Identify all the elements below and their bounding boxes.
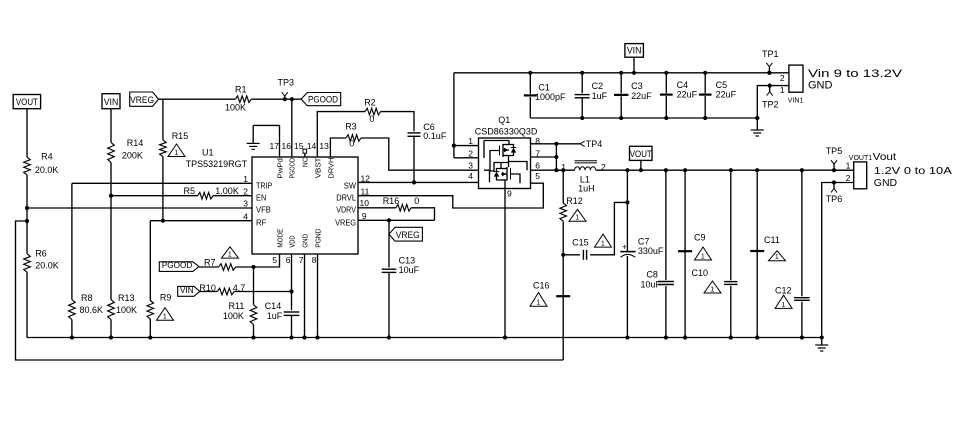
svg-text:TP3: TP3 — [278, 77, 295, 87]
svg-text:CSD86330Q3D: CSD86330Q3D — [475, 127, 538, 137]
svg-text:13: 13 — [319, 141, 329, 151]
svg-text:7: 7 — [535, 148, 540, 158]
svg-text:PGND: PGND — [314, 228, 323, 248]
svg-text:PGOOD: PGOOD — [288, 158, 297, 179]
svg-text:R6: R6 — [35, 249, 47, 259]
svg-text:3: 3 — [243, 199, 248, 209]
svg-text:U1: U1 — [202, 148, 214, 158]
svg-text:Q1: Q1 — [498, 115, 510, 125]
svg-text:7: 7 — [299, 255, 304, 265]
svg-text:VFB: VFB — [256, 206, 271, 215]
svg-text:5: 5 — [535, 171, 540, 181]
svg-text:17: 17 — [270, 141, 280, 151]
svg-text:R2: R2 — [364, 97, 376, 107]
svg-text:GND: GND — [301, 234, 310, 248]
svg-text:MODE: MODE — [276, 229, 285, 248]
svg-text:1uF: 1uF — [267, 311, 283, 321]
svg-text:4: 4 — [243, 211, 248, 221]
svg-text:VOUT1: VOUT1 — [849, 155, 872, 162]
svg-text:22uF: 22uF — [677, 89, 698, 99]
svg-text:NC: NC — [301, 157, 310, 167]
svg-text:+: + — [622, 243, 627, 252]
svg-text:PwPd: PwPd — [276, 158, 285, 178]
svg-text:R11: R11 — [229, 301, 245, 311]
svg-text:8: 8 — [312, 255, 317, 265]
svg-text:1.2V 0 to 10A: 1.2V 0 to 10A — [874, 165, 952, 177]
svg-text:1000pF: 1000pF — [535, 92, 566, 102]
svg-text:1: 1 — [243, 174, 248, 184]
svg-text:200K: 200K — [122, 151, 143, 161]
svg-text:VIN: VIN — [180, 285, 194, 295]
svg-text:C12: C12 — [775, 286, 792, 296]
svg-text:R13: R13 — [118, 293, 135, 303]
svg-text:1: 1 — [174, 150, 178, 157]
svg-text:TP1: TP1 — [762, 49, 779, 59]
svg-text:VIN: VIN — [627, 46, 642, 57]
svg-text:C3: C3 — [631, 81, 643, 91]
svg-text:14: 14 — [307, 141, 317, 151]
svg-text:1: 1 — [701, 253, 705, 260]
svg-text:0.1uF: 0.1uF — [423, 131, 447, 141]
svg-text:100K: 100K — [223, 311, 244, 321]
svg-text:100K: 100K — [116, 305, 137, 315]
svg-text:6: 6 — [286, 255, 291, 265]
svg-text:R9: R9 — [160, 293, 172, 303]
svg-text:Vin 9 to 13.2V: Vin 9 to 13.2V — [808, 68, 903, 80]
svg-text:VIN: VIN — [104, 97, 119, 108]
svg-text:TP2: TP2 — [762, 100, 779, 110]
svg-text:TP6: TP6 — [826, 194, 843, 204]
svg-text:10uF: 10uF — [399, 265, 420, 275]
svg-text:SW: SW — [344, 181, 357, 190]
svg-text:15: 15 — [294, 141, 304, 151]
svg-text:DRVH: DRVH — [327, 158, 336, 179]
svg-text:R16: R16 — [383, 196, 400, 206]
svg-text:R1: R1 — [235, 85, 247, 95]
svg-text:22uF: 22uF — [631, 91, 652, 101]
svg-text:TRIP: TRIP — [256, 181, 272, 190]
svg-text:1: 1 — [468, 136, 473, 146]
svg-text:VREG: VREG — [130, 95, 154, 106]
svg-text:TP5: TP5 — [826, 146, 843, 156]
svg-text:VOUT: VOUT — [16, 97, 38, 108]
svg-text:20.0K: 20.0K — [35, 165, 59, 175]
svg-text:16: 16 — [282, 141, 292, 151]
svg-text:11: 11 — [361, 186, 370, 196]
svg-text:VDRV: VDRV — [336, 206, 356, 215]
svg-text:DRVL: DRVL — [336, 193, 356, 202]
svg-text:4: 4 — [468, 171, 473, 181]
svg-text:R8: R8 — [81, 293, 93, 303]
svg-text:330uF: 330uF — [638, 246, 664, 256]
svg-text:VREG: VREG — [335, 218, 356, 227]
svg-text:22uF: 22uF — [716, 89, 737, 99]
svg-text:C14: C14 — [265, 301, 282, 311]
svg-text:0: 0 — [349, 139, 354, 149]
svg-text:R3: R3 — [345, 122, 357, 132]
svg-text:2: 2 — [468, 148, 473, 158]
svg-text:1: 1 — [782, 302, 786, 309]
svg-text:R5: R5 — [184, 186, 196, 196]
svg-text:10uF: 10uF — [640, 280, 661, 290]
svg-text:R4: R4 — [41, 152, 53, 162]
svg-text:6: 6 — [535, 161, 540, 171]
svg-text:100K: 100K — [225, 103, 246, 113]
svg-text:R10: R10 — [199, 283, 216, 293]
svg-text:C16: C16 — [533, 281, 550, 291]
svg-text:80.6K: 80.6K — [80, 305, 104, 315]
svg-text:RF: RF — [256, 218, 266, 227]
svg-text:C11: C11 — [764, 235, 780, 245]
svg-text:GND: GND — [808, 80, 833, 92]
svg-text:1: 1 — [575, 215, 579, 222]
svg-text:1: 1 — [710, 286, 714, 293]
svg-text:EN: EN — [256, 193, 266, 202]
svg-text:5: 5 — [272, 255, 277, 265]
svg-text:1: 1 — [601, 241, 605, 248]
svg-text:TPS53219RGT: TPS53219RGT — [186, 159, 248, 169]
svg-text:C13: C13 — [399, 256, 416, 266]
svg-text:1.00K: 1.00K — [215, 186, 239, 196]
svg-text:9: 9 — [507, 188, 512, 198]
svg-text:VREG: VREG — [396, 230, 420, 241]
svg-text:1: 1 — [163, 314, 167, 321]
svg-text:C8: C8 — [646, 270, 658, 280]
svg-text:3: 3 — [468, 161, 473, 171]
svg-text:1: 1 — [228, 252, 232, 259]
svg-text:R7: R7 — [204, 258, 216, 268]
svg-text:1uF: 1uF — [592, 91, 608, 101]
svg-text:2: 2 — [846, 173, 851, 183]
svg-text:VOUT: VOUT — [630, 149, 652, 160]
svg-text:10: 10 — [360, 198, 370, 208]
svg-text:C9: C9 — [694, 233, 706, 243]
svg-text:C2: C2 — [592, 81, 604, 91]
svg-text:C10: C10 — [691, 268, 708, 278]
svg-text:1: 1 — [780, 85, 785, 95]
svg-text:R14: R14 — [127, 138, 144, 148]
svg-text:C1: C1 — [538, 83, 550, 93]
svg-text:VBST: VBST — [314, 157, 323, 178]
svg-text:VDD: VDD — [288, 235, 297, 248]
svg-text:GND: GND — [874, 177, 898, 189]
svg-text:8: 8 — [535, 136, 540, 146]
svg-text:0: 0 — [414, 196, 419, 206]
svg-text:1: 1 — [536, 300, 540, 307]
svg-text:R15: R15 — [172, 131, 189, 141]
svg-text:2: 2 — [243, 186, 248, 196]
svg-text:0: 0 — [369, 114, 374, 124]
svg-text:2: 2 — [780, 73, 785, 83]
svg-text:R12: R12 — [566, 196, 583, 206]
svg-text:9: 9 — [362, 211, 367, 221]
svg-text:TP4: TP4 — [586, 139, 603, 149]
svg-text:20.0K: 20.0K — [35, 261, 59, 271]
svg-text:PGOOD: PGOOD — [308, 95, 338, 106]
svg-text:Vout: Vout — [873, 151, 897, 163]
svg-text:1uH: 1uH — [578, 184, 595, 194]
svg-text:C15: C15 — [572, 238, 589, 248]
svg-text:VIN1: VIN1 — [788, 97, 804, 104]
svg-text:PGOOD: PGOOD — [162, 260, 193, 270]
svg-text:4.7: 4.7 — [233, 283, 246, 293]
svg-text:1: 1 — [775, 254, 779, 261]
